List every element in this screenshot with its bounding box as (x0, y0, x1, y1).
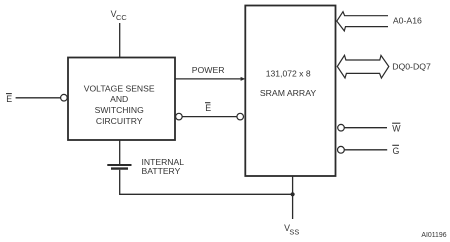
svg-text:CC: CC (116, 13, 127, 22)
block U1 VOLTAGE SENSE AND SWITCHING CIRCUITRY (68, 58, 175, 141)
label INTERNAL BATTERY (142, 157, 185, 176)
bus arrow DQ0-DQ7 bidirectional (337, 55, 389, 78)
wire battery BT1 to VSS rail (120, 170, 293, 195)
inversion bubble E output U1 (176, 113, 183, 120)
wire VCC to U1 (119, 23, 121, 57)
svg-text:AI01196: AI01196 (421, 232, 446, 239)
svg-text:AND: AND (110, 94, 128, 104)
svg-text:E: E (205, 103, 211, 113)
power VCC label (111, 9, 128, 22)
svg-text:W: W (392, 124, 401, 134)
battery BT1 INTERNAL BATTERY (107, 165, 131, 169)
svg-text:G: G (393, 146, 400, 156)
svg-text:SRAM ARRAY: SRAM ARRAY (260, 88, 317, 98)
wire U2 to VSS (292, 176, 294, 219)
wire E U1 to U2 (182, 116, 237, 118)
wire E input to U1 (16, 97, 61, 99)
svg-text:131,072 x 8: 131,072 x 8 (266, 69, 311, 79)
svg-text:DQ0-DQ7: DQ0-DQ7 (392, 61, 431, 71)
wire W (344, 127, 387, 129)
svg-text:SWITCHING: SWITCHING (95, 105, 144, 115)
svg-text:A0-A16: A0-A16 (393, 16, 422, 26)
node G label (392, 145, 399, 156)
inversion bubble G pin U2 (338, 146, 345, 153)
inversion bubble E pin U1 (61, 94, 68, 101)
block U2 SRAM ARRAY 131,072 x 8 (245, 6, 335, 177)
node W label (392, 123, 401, 134)
svg-text:CIRCUITRY: CIRCUITRY (96, 116, 143, 126)
power VSS label (284, 223, 299, 236)
wire G (344, 149, 387, 151)
inversion bubble W pin U2 (338, 124, 345, 131)
svg-text:E: E (6, 94, 12, 104)
wire POWER U1 to U2 (176, 78, 242, 80)
junction VSS node (291, 192, 295, 196)
svg-text:POWER: POWER (192, 65, 225, 75)
svg-text:SS: SS (289, 227, 299, 236)
node E label between blocks (205, 103, 211, 113)
svg-text:VOLTAGE SENSE: VOLTAGE SENSE (84, 83, 155, 93)
svg-text:BATTERY: BATTERY (142, 166, 181, 176)
arrowhead POWER (241, 77, 246, 81)
inversion bubble E pin U2 (237, 113, 244, 120)
wire U1 to battery BT1 (119, 140, 121, 164)
node E input label (6, 94, 12, 105)
bus arrow A0-A16 into U2 (337, 12, 388, 31)
